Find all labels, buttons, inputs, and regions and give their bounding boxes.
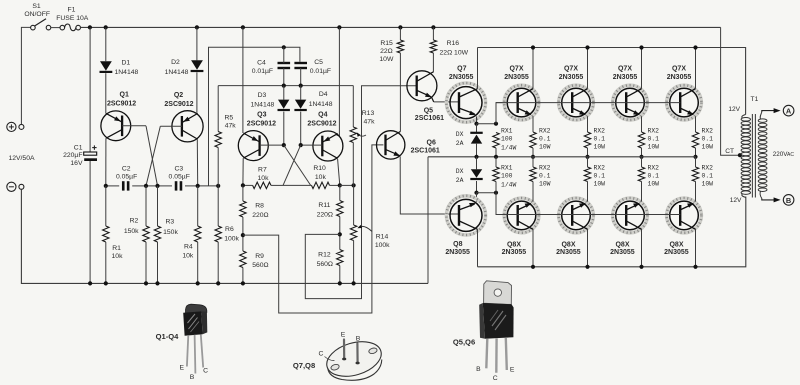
svg-text:C5: C5 — [314, 59, 323, 66]
output terminal B — [783, 195, 794, 206]
svg-text:2N3055: 2N3055 — [556, 249, 581, 256]
resistor R6 — [215, 226, 221, 242]
wire battery plus to switch — [21, 27, 30, 124]
node center rail col#3 — [639, 155, 643, 159]
node C3/R3 junction — [155, 184, 159, 188]
label 12V bottom — [730, 197, 742, 204]
wire Q1 base — [122, 125, 146, 127]
transistor Q8X#3 2N3055 — [613, 198, 648, 233]
label R6 — [224, 226, 239, 242]
wire Q7X#4 emitter lead — [695, 116, 697, 132]
wire R14 top lead — [353, 185, 355, 225]
resistor RX1 bottom 100 1/4W — [493, 167, 499, 182]
svg-text:0.01µF: 0.01µF — [310, 68, 331, 75]
svg-text:10W: 10W — [379, 56, 394, 63]
transistor Q7X#2 2N3055 — [559, 85, 594, 120]
svg-text:C4: C4 — [257, 59, 266, 66]
svg-text:10k: 10k — [315, 174, 327, 181]
svg-text:10W: 10W — [648, 144, 660, 151]
svg-text:1/4W: 1/4W — [501, 182, 517, 189]
svg-text:Q3: Q3 — [257, 112, 266, 119]
wire R4 top lead — [197, 186, 199, 226]
node RX1 center — [494, 155, 498, 159]
wire RX1 node to Q7X base rail — [496, 103, 505, 124]
wire Q3 collector — [242, 158, 244, 185]
wire RX2 top#2 to rail — [587, 148, 589, 157]
svg-text:RX2: RX2 — [594, 127, 606, 134]
label Q7X#3 — [613, 66, 638, 81]
svg-text:C: C — [203, 367, 208, 374]
label CT — [725, 148, 734, 155]
wire R8 top lead — [242, 185, 244, 201]
wire node row Q1-collector to C2 — [106, 185, 119, 187]
node bottom bus R9 — [241, 281, 245, 285]
svg-text:150k: 150k — [163, 229, 178, 236]
wire RX2 top#3 to rail — [641, 148, 643, 157]
svg-text:0.1: 0.1 — [594, 173, 606, 180]
node Q8X#4 collector rail — [693, 265, 697, 269]
wire R8/R9 junction to Q6 base (feedback) — [243, 145, 384, 313]
label Q7X#4 — [667, 66, 692, 81]
label Q5 — [415, 107, 444, 121]
label Q7 — [449, 66, 474, 81]
wire R2 top lead — [145, 186, 147, 226]
svg-text:ON/OFF: ON/OFF — [24, 11, 50, 18]
diode D2 — [191, 60, 204, 71]
svg-text:C: C — [493, 375, 498, 382]
label D3 — [250, 92, 274, 109]
svg-text:0.01µF: 0.01µF — [252, 68, 273, 75]
wire R16 top lead — [432, 27, 434, 40]
wire C3 left lead — [158, 185, 173, 187]
wire Q8X#1 collector — [532, 229, 534, 267]
svg-text:E: E — [341, 332, 346, 339]
svg-text:2N3055: 2N3055 — [559, 74, 584, 81]
node bus-Q3 emitter — [241, 25, 245, 29]
svg-text:2SC9012: 2SC9012 — [164, 101, 193, 108]
svg-text:0.1: 0.1 — [702, 173, 714, 180]
label Q8X#2 — [556, 241, 581, 256]
label RX1 bottom — [501, 164, 517, 188]
svg-text:B: B — [190, 374, 195, 381]
svg-text:22Ω: 22Ω — [380, 48, 393, 55]
node bus-D2 — [195, 25, 199, 29]
wire diagonal node to R10 — [283, 184, 312, 186]
diode D3 — [278, 100, 290, 110]
label RX2 top#2 — [594, 127, 606, 150]
svg-text:560Ω: 560Ω — [317, 261, 333, 268]
package TO-220 Q5,Q6 — [479, 281, 513, 373]
svg-text:10W: 10W — [648, 181, 660, 188]
svg-text:F1: F1 — [68, 7, 76, 14]
resistor RX2 top#4 0.1 10W — [692, 132, 698, 148]
wire Q8X#2 collector — [587, 229, 589, 267]
wire Q8X base rail — [496, 214, 680, 216]
label R12 — [317, 252, 333, 268]
svg-text:RX2: RX2 — [702, 164, 714, 171]
resistor RX2 bottom#1 0.1 10W — [530, 167, 536, 182]
resistor R13 — [350, 127, 356, 143]
capacitor C3 — [176, 181, 181, 190]
node bottom bus R2 — [144, 281, 148, 285]
diode D1 — [100, 61, 113, 72]
svg-text:2N3055: 2N3055 — [610, 249, 635, 256]
node DX center — [474, 155, 478, 159]
wire D4 top lead — [300, 86, 302, 100]
diode DX1 2A — [470, 133, 482, 144]
wire Q8 collector — [477, 229, 479, 267]
svg-text:220Ω: 220Ω — [252, 212, 268, 219]
wire D2 top lead — [196, 27, 198, 60]
svg-text:12V: 12V — [730, 197, 742, 204]
resistor R11 — [337, 201, 343, 217]
svg-text:2N3055: 2N3055 — [445, 249, 470, 256]
wire C1 bottom lead — [89, 161, 91, 283]
wire Q4 emitter from bus — [337, 27, 340, 136]
wire Q2 collector node to R5/R6 — [198, 185, 219, 187]
wire R10 to Q4 collector node — [330, 184, 340, 186]
wire Q8X#3 emitter lead — [641, 182, 643, 202]
capacitor C5 — [294, 63, 307, 68]
svg-text:DX: DX — [456, 131, 464, 138]
svg-text:Q7: Q7 — [457, 66, 466, 73]
wire Q7X#2 emitter lead — [587, 116, 589, 132]
svg-text:R6: R6 — [225, 226, 234, 233]
transistor Q8X#4 2N3055 — [667, 198, 702, 233]
transistor Q2 2SC9012 — [172, 111, 203, 142]
wire Q7X#3 collector — [641, 48, 643, 89]
wire secondary to output B — [762, 197, 781, 202]
label RX2 top#4 — [702, 127, 714, 150]
wire Q7X#1 emitter lead — [532, 116, 534, 132]
label R4 — [182, 243, 194, 259]
label package Q1-Q4 — [156, 332, 180, 341]
transistor Q8X#1 2N3055 — [504, 198, 539, 233]
wire RX1 bottom leads — [495, 157, 497, 193]
svg-text:2A: 2A — [456, 177, 464, 184]
svg-text:10k: 10k — [182, 253, 194, 260]
wire Q7X base rail — [496, 102, 680, 104]
label TO-92 pin B — [190, 374, 195, 381]
wire R4 bottom lead — [197, 242, 199, 283]
node bottom bus C1 — [88, 281, 92, 285]
svg-text:220Ω: 220Ω — [317, 212, 333, 219]
wire Q4 collector node to R13 node — [340, 184, 354, 186]
node D4 anode — [299, 84, 303, 88]
node Q8 emitter — [474, 191, 478, 195]
label TO-220 pin B — [476, 366, 481, 373]
label C2 — [116, 166, 137, 181]
label Q8X#4 — [664, 241, 689, 256]
label C3 — [169, 166, 190, 181]
resistor R12 — [337, 250, 343, 266]
label Q6 — [411, 140, 440, 155]
wire node R2 to node R3 — [146, 185, 158, 187]
wire R12 bottom lead — [339, 266, 341, 284]
label Q8X#1 — [502, 241, 527, 256]
transistor Q5 2SC1061 — [407, 71, 437, 101]
wire R15 top lead — [399, 27, 401, 40]
resistor R14 — [350, 225, 356, 241]
label TO-92 pin C — [203, 367, 208, 374]
svg-text:0.1: 0.1 — [539, 136, 551, 143]
wire RX2 top#4 to rail — [695, 148, 697, 157]
svg-text:Q7X: Q7X — [509, 66, 523, 73]
wire Q4 collector — [338, 159, 340, 185]
svg-text:RX1: RX1 — [501, 127, 513, 134]
label R10 — [313, 165, 326, 181]
svg-text:R11: R11 — [318, 202, 330, 209]
wire Q7 collector rail — [478, 48, 746, 115]
diode DX2 2A — [470, 169, 482, 179]
svg-text:R5: R5 — [224, 114, 233, 121]
wire R14 bottom lead — [353, 241, 355, 284]
node bus-C1 — [88, 25, 92, 29]
node bottom bus R3 — [155, 281, 159, 285]
svg-text:RX2: RX2 — [594, 164, 606, 171]
node Q4 collector / R11 — [338, 183, 342, 187]
svg-text:0.1: 0.1 — [539, 173, 551, 180]
svg-text:0.1: 0.1 — [648, 173, 660, 180]
wire D3/D4 anode net — [218, 85, 353, 87]
svg-text:RX1: RX1 — [501, 164, 513, 171]
wire C4/C5 top net — [209, 47, 300, 186]
node center rail col#1 — [531, 155, 535, 159]
svg-text:T1: T1 — [751, 96, 759, 103]
wire Q2 base cross-coupling diagonal — [146, 126, 160, 186]
svg-text:Q2: Q2 — [174, 92, 183, 99]
svg-text:Q1-Q4: Q1-Q4 — [156, 332, 180, 341]
battery negative terminal — [7, 182, 24, 191]
node Q8X#2 collector rail — [585, 265, 589, 269]
label R1 — [112, 245, 124, 260]
label R9 — [252, 253, 268, 269]
svg-text:Q7X: Q7X — [564, 66, 578, 73]
svg-text:2A: 2A — [456, 140, 464, 147]
resistor R9 — [240, 251, 246, 268]
label 220VAC — [773, 151, 795, 158]
wire C4 leads — [283, 47, 285, 85]
wire Q8X#1 emitter lead — [532, 182, 534, 202]
label 12V/50A — [8, 155, 35, 162]
node center rail col#4 — [693, 155, 697, 159]
svg-text:Q8: Q8 — [453, 241, 462, 248]
package TO-3 Q7,Q8 — [323, 336, 386, 383]
fuse F1 — [56, 7, 89, 31]
svg-text:100k: 100k — [375, 242, 390, 249]
wire Q8X#2 emitter lead — [587, 182, 589, 202]
label R8 — [252, 203, 268, 219]
transistor Q8 2N3055 — [446, 196, 485, 235]
svg-text:1/4W: 1/4W — [501, 145, 517, 152]
wire Q8X#4 collector — [695, 229, 697, 267]
svg-text:R7: R7 — [258, 166, 267, 173]
svg-text:2N3055: 2N3055 — [504, 74, 529, 81]
svg-text:R15: R15 — [380, 40, 393, 47]
transformer T1 secondary winding — [758, 112, 767, 198]
node bus-Q4 emitter — [337, 25, 341, 29]
wire Q7X#2 collector — [587, 48, 589, 89]
svg-text:Q1: Q1 — [120, 91, 129, 98]
wire RX2 bottom#2 to rail — [587, 157, 589, 167]
label D4 — [309, 91, 333, 108]
svg-text:A: A — [786, 107, 792, 116]
diode D4 — [294, 100, 306, 110]
wire Q7X#3 emitter lead — [641, 116, 643, 132]
svg-text:1N4148: 1N4148 — [114, 69, 138, 76]
wire RX2 top#1 to rail — [532, 148, 534, 157]
label R16 — [440, 40, 469, 56]
wire Q7X#4 collector — [695, 48, 697, 89]
svg-text:C1: C1 — [74, 144, 83, 151]
label RX2 bottom#3 — [648, 164, 660, 187]
label DX2 — [456, 168, 464, 184]
node R11/R12 junction — [338, 232, 342, 236]
node bottom bus R1 — [104, 281, 108, 285]
resistor RX2 top#2 0.1 10W — [584, 132, 590, 148]
label TO-3 pin E — [341, 332, 346, 339]
label Q4 — [307, 112, 336, 128]
svg-text:10W: 10W — [539, 181, 551, 188]
svg-text:R14: R14 — [376, 233, 389, 240]
svg-text:Q7X: Q7X — [672, 66, 686, 73]
package TO-92 Q1-Q4 — [183, 304, 207, 373]
label Q8 — [445, 241, 470, 256]
resistor R16 — [430, 40, 436, 53]
capacitor C1 — [63, 144, 97, 166]
wire R11 top lead — [339, 185, 341, 200]
svg-text:Q8X: Q8X — [561, 241, 575, 248]
svg-text:D4: D4 — [319, 91, 328, 98]
svg-text:Q5,Q6: Q5,Q6 — [453, 338, 475, 347]
wire R9 bottom lead — [242, 268, 244, 284]
node Q1 collector/C2/R1 — [104, 184, 108, 188]
svg-text:100: 100 — [501, 173, 513, 180]
node Q8X#1 collector rail — [531, 265, 535, 269]
svg-text:1N4148: 1N4148 — [309, 101, 333, 108]
svg-text:R1: R1 — [112, 245, 121, 252]
wire D4 to Q4 base — [300, 112, 302, 146]
transistor Q8X#2 2N3055 — [559, 198, 594, 233]
label C4 — [252, 59, 273, 75]
label package Q7,Q8 — [293, 361, 315, 370]
wire Q6 emitter to Q8 base — [400, 156, 459, 214]
resistor RX2 bottom#2 0.1 10W — [584, 167, 590, 182]
svg-text:B: B — [356, 335, 361, 342]
svg-text:AC: AC — [787, 152, 794, 158]
svg-text:D2: D2 — [171, 59, 180, 66]
capacitor C4 — [278, 63, 291, 68]
resistor RX2 top#1 0.1 10W — [530, 132, 536, 148]
node Q3 collector / R8 — [241, 183, 245, 187]
svg-text:10W: 10W — [702, 144, 714, 151]
wire DX1 to center rail — [476, 144, 478, 157]
arrow R14 select mark — [357, 225, 372, 232]
label R14 — [375, 233, 390, 249]
resistor R10 — [312, 182, 330, 188]
svg-text:R16: R16 — [447, 40, 460, 47]
node bottom bus R6 — [216, 281, 220, 285]
arrow R13 select mark — [357, 132, 366, 137]
wire C3 to Q2 collector node — [185, 185, 198, 187]
label TO-220 pin E — [510, 366, 515, 373]
resistor R8 — [240, 201, 246, 217]
svg-text:R2: R2 — [130, 217, 139, 224]
wire R15 to Q6 collector — [399, 53, 401, 132]
svg-text:R9: R9 — [255, 253, 264, 260]
battery positive terminal — [7, 122, 24, 131]
wire R6 top lead — [217, 186, 219, 226]
transistor Q7 2N3055 — [446, 83, 485, 122]
label TO-3 pin C — [319, 350, 335, 360]
label TO-92 pin E — [180, 364, 185, 371]
svg-text:2N3055: 2N3055 — [613, 74, 638, 81]
svg-text:22Ω 10W: 22Ω 10W — [440, 49, 469, 56]
svg-text:10W: 10W — [594, 144, 606, 151]
wire Q8 emitter node to RX1b — [477, 192, 497, 194]
node D3 anode — [282, 84, 286, 88]
node Q8X#3 collector rail — [639, 265, 643, 269]
wire Q3 emitter from bus — [242, 27, 244, 133]
label R2 — [124, 217, 139, 235]
transistor Q3 2SC9012 — [238, 131, 268, 161]
node bus-R15 — [398, 25, 402, 29]
wire D1 top lead — [105, 27, 107, 61]
svg-text:0.1: 0.1 — [648, 136, 660, 143]
label RX2 top#3 — [648, 127, 660, 150]
transformer T1 primary winding — [741, 115, 750, 195]
svg-text:220V: 220V — [773, 151, 789, 158]
wire top supply bus — [81, 26, 721, 28]
resistor RX2 bottom#4 0.1 10W — [692, 167, 698, 182]
wire R2 bottom lead — [145, 242, 147, 283]
svg-text:R8: R8 — [255, 203, 264, 210]
node bottom bus R12 — [338, 281, 342, 285]
transistor Q1 2SC9012 — [101, 111, 131, 141]
node Q7X#4 collector rail — [693, 45, 697, 49]
svg-text:10k: 10k — [112, 253, 124, 260]
wire bottom return bus — [21, 190, 428, 284]
label C5 — [310, 59, 331, 75]
label Q2 — [164, 92, 193, 108]
svg-text:RX2: RX2 — [648, 164, 660, 171]
node Q2 collector/C3/R4 — [196, 184, 200, 188]
node bus-D1 — [104, 25, 108, 29]
svg-text:CT: CT — [725, 148, 734, 155]
wire D3 to Q3 base — [283, 112, 285, 146]
svg-text:1N4148: 1N4148 — [250, 102, 274, 109]
resistor RX1 top 100 1/4W — [493, 133, 499, 149]
svg-text:100: 100 — [501, 136, 513, 143]
resistor R15 — [397, 40, 403, 53]
wire Q5 emitter to Q7 base — [432, 97, 459, 102]
svg-text:FUSE 10A: FUSE 10A — [56, 15, 89, 22]
label 12V top — [728, 106, 740, 113]
resistor R4 — [195, 226, 201, 242]
svg-text:47k: 47k — [225, 123, 237, 130]
wire secondary to output A — [762, 108, 781, 113]
wire R13 top lead — [352, 86, 354, 127]
svg-text:S1: S1 — [32, 3, 41, 10]
wire primary bottom lead — [742, 194, 746, 198]
switch S1 — [24, 3, 50, 30]
svg-text:2N3055: 2N3055 — [449, 74, 474, 81]
svg-text:R12: R12 — [318, 252, 331, 259]
svg-text:Q4: Q4 — [318, 112, 327, 119]
label RX1 top — [501, 127, 517, 151]
svg-text:RX2: RX2 — [702, 127, 714, 134]
svg-text:RX2: RX2 — [539, 127, 551, 134]
